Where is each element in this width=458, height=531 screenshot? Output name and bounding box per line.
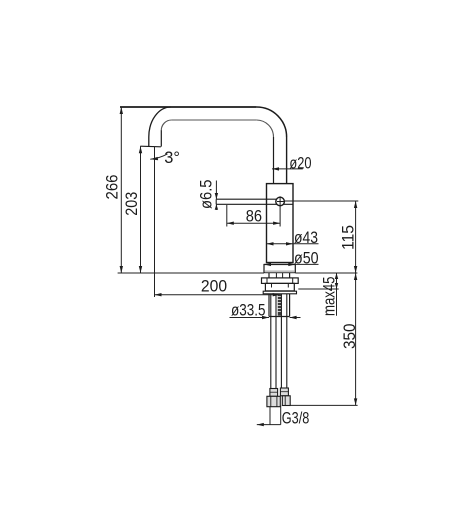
o20 leader	[272, 168, 303, 170]
svg-text:ø20: ø20	[289, 153, 311, 172]
threaded stud	[278, 294, 282, 316]
arrow o6.5 top	[215, 193, 218, 199]
arrow 200 right	[273, 293, 280, 296]
svg-text:max45: max45	[320, 277, 339, 317]
spout left tube inner edge	[160, 130, 162, 146]
lever rod	[216, 199, 293, 204]
spout right downtube inner edge	[273, 137, 275, 184]
horseshoe washer	[262, 278, 299, 284]
lever pivot circle	[276, 197, 285, 206]
svg-text:G3/8: G3/8	[282, 409, 310, 428]
svg-text:200: 200	[201, 277, 227, 296]
350 bottom extension	[290, 404, 357, 406]
svg-text:115: 115	[339, 225, 358, 250]
dim line o43	[267, 243, 319, 245]
svg-text:ø6.5: ø6.5	[197, 180, 216, 210]
spout inner bottom edge	[172, 119, 257, 121]
spout left bend inner	[161, 120, 171, 130]
spout top edge with extension line	[120, 106, 257, 108]
left connector nut G3/8	[267, 396, 280, 406]
arrow o6.5 bottom	[215, 204, 218, 210]
mounting shank	[269, 273, 290, 317]
arrow 266 bottom	[120, 266, 123, 273]
o33.5 dim line left part	[230, 317, 270, 319]
arrow o33.5 right	[290, 316, 297, 319]
spout right bend outer	[257, 107, 287, 137]
right hose	[281, 294, 286, 388]
arrow o33.5 left	[262, 316, 269, 319]
svg-text:350: 350	[340, 324, 359, 350]
svg-text:266: 266	[102, 175, 121, 200]
dim line 266	[120, 107, 122, 273]
arrow 86 right	[273, 222, 280, 225]
svg-text:86: 86	[246, 206, 262, 225]
spout left tube outer edge	[148, 137, 150, 146]
arrow 86 left	[227, 222, 234, 225]
arrow o50 left	[264, 263, 271, 266]
mounting nut	[265, 283, 294, 291]
dim line o50	[264, 263, 319, 265]
svg-text:3°: 3°	[164, 148, 180, 167]
spout right bend inner	[257, 120, 274, 137]
arrow 200 left	[155, 293, 162, 296]
o6.5 leader	[215, 181, 217, 211]
arrow 203 top	[139, 146, 142, 153]
arrow 203 bottom	[139, 266, 142, 273]
G3/8 leader horizontal	[257, 424, 281, 426]
spout right downtube outer edge	[286, 137, 288, 184]
deck line left	[118, 272, 264, 274]
dim line 200	[155, 294, 280, 296]
arrow 3deg	[150, 157, 158, 160]
lower washer plate	[263, 291, 296, 294]
base flange	[264, 265, 295, 273]
arrow o20	[272, 167, 279, 170]
arrow 115 bottom	[354, 266, 357, 273]
shank stud stubs	[276, 273, 282, 278]
spout outlet face	[140, 145, 161, 148]
outlet axis extension line	[154, 147, 156, 298]
deck line right	[295, 272, 357, 274]
arrow max45 bottom	[335, 283, 338, 289]
arrow G3/8	[257, 423, 264, 426]
dimension and extension lines	[118, 107, 359, 425]
max45 bottom extension	[298, 288, 338, 290]
flange shaded strip	[265, 270, 295, 272]
arrow o43 right	[286, 242, 293, 245]
arrow 115 top	[354, 201, 357, 208]
arrow o43 left	[267, 242, 274, 245]
arrow 350 bottom	[354, 398, 357, 405]
arrow 350 top	[354, 273, 357, 280]
arrowheads	[120, 107, 358, 426]
left hose	[271, 294, 276, 389]
pivot vertical tick	[279, 196, 281, 226]
spout left bend outer	[149, 107, 171, 137]
svg-text:203: 203	[122, 192, 141, 216]
svg-text:ø43: ø43	[294, 228, 318, 247]
right hose ferrule	[280, 388, 288, 396]
dim line 86	[227, 222, 280, 224]
arrow 266 top	[120, 107, 123, 114]
86 left extension	[226, 205, 228, 227]
max45 dim line	[336, 273, 338, 316]
dim line 115 / 350	[355, 201, 357, 405]
left hose ferrule	[270, 389, 278, 397]
right connector nut G3/8	[282, 396, 290, 406]
115 top extension	[285, 200, 359, 202]
dim line 203	[140, 146, 142, 273]
arrow max45 top	[335, 273, 338, 279]
o33.5 dim line right part	[290, 317, 301, 319]
svg-text:ø50: ø50	[294, 248, 319, 267]
svg-text:ø33.5: ø33.5	[231, 301, 266, 320]
arrow o50 right	[288, 263, 295, 266]
body block	[267, 184, 294, 263]
G3/8 leader verticals	[270, 406, 281, 425]
3 degree arc	[150, 154, 167, 159]
pivot horizontal tick	[277, 201, 284, 203]
